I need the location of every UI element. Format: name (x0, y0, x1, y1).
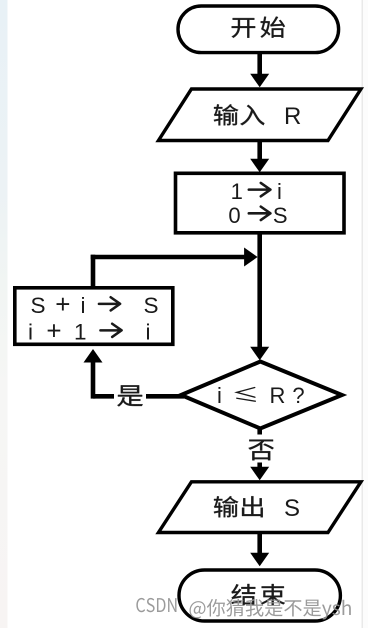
terminal start (开始) (178, 6, 339, 53)
wire init-to-decision (257, 232, 262, 349)
arrowhead into accumulate box (84, 349, 103, 363)
label 否 (no) (248, 440, 273, 461)
svg-text:i: i (277, 179, 282, 204)
svg-text:0: 0 (228, 203, 240, 228)
label 结束 (231, 584, 285, 605)
svg-text:i: i (28, 320, 33, 345)
svg-text:1: 1 (74, 320, 87, 345)
svg-text:+: + (55, 289, 70, 319)
svg-text:R: R (284, 103, 301, 130)
svg-text:?: ? (292, 383, 304, 408)
wire yes-branch vertical (91, 359, 96, 399)
svg-text:R: R (270, 383, 286, 408)
wire loop-return vertical (91, 255, 96, 288)
arrowhead loop-return junction (244, 248, 258, 267)
arrowhead into end terminal (250, 553, 269, 567)
wire input-to-init (257, 139, 262, 161)
wire yes-branch horizontal (93, 394, 184, 399)
label i ≤ R ? (237, 388, 256, 402)
arrowhead into init rectangle (250, 159, 269, 173)
decision diamond (i≤R?) (181, 362, 342, 429)
wire output-to-end (257, 531, 262, 555)
svg-text:S: S (30, 293, 45, 318)
right edge divider line (362, 0, 364, 628)
label 是 (yes) (117, 385, 142, 406)
label 开始 (232, 17, 285, 38)
yes label background (114, 383, 146, 409)
label 0→ S (249, 207, 271, 220)
svg-text:i: i (146, 320, 151, 345)
label S + i → S (99, 297, 120, 310)
label 输入 R (214, 104, 265, 125)
io output parallelogram (输出 S) (158, 482, 361, 533)
svg-text:+: + (46, 316, 61, 346)
left edge tint strip (0, 0, 8, 628)
svg-text:i: i (81, 293, 86, 318)
wire no-branch (257, 427, 262, 468)
wire loop-return horizontal (91, 255, 246, 260)
svg-text:i: i (217, 383, 222, 408)
watermark CSDN @你猜我是不是ysh (136, 598, 351, 620)
process init rectangle (1→i 0→S) (176, 173, 345, 233)
wire start-to-input (257, 51, 262, 76)
svg-text:S: S (273, 203, 288, 228)
svg-text:S: S (143, 293, 158, 318)
arrowhead into input parallelogram (250, 74, 269, 88)
label 1→ i (249, 183, 271, 196)
label i + 1 → i (100, 324, 121, 337)
label 输出 S (214, 496, 263, 517)
arrowhead into decision diamond (250, 347, 269, 361)
svg-text:S: S (284, 495, 300, 522)
io input parallelogram (输入 R) (158, 89, 361, 141)
terminal end (结束) (179, 570, 340, 621)
process accumulate rectangle (S+i→S, i+1→i) (15, 288, 173, 345)
arrowhead into output parallelogram (250, 467, 269, 481)
svg-text:1: 1 (231, 179, 243, 204)
no label background (246, 435, 276, 463)
